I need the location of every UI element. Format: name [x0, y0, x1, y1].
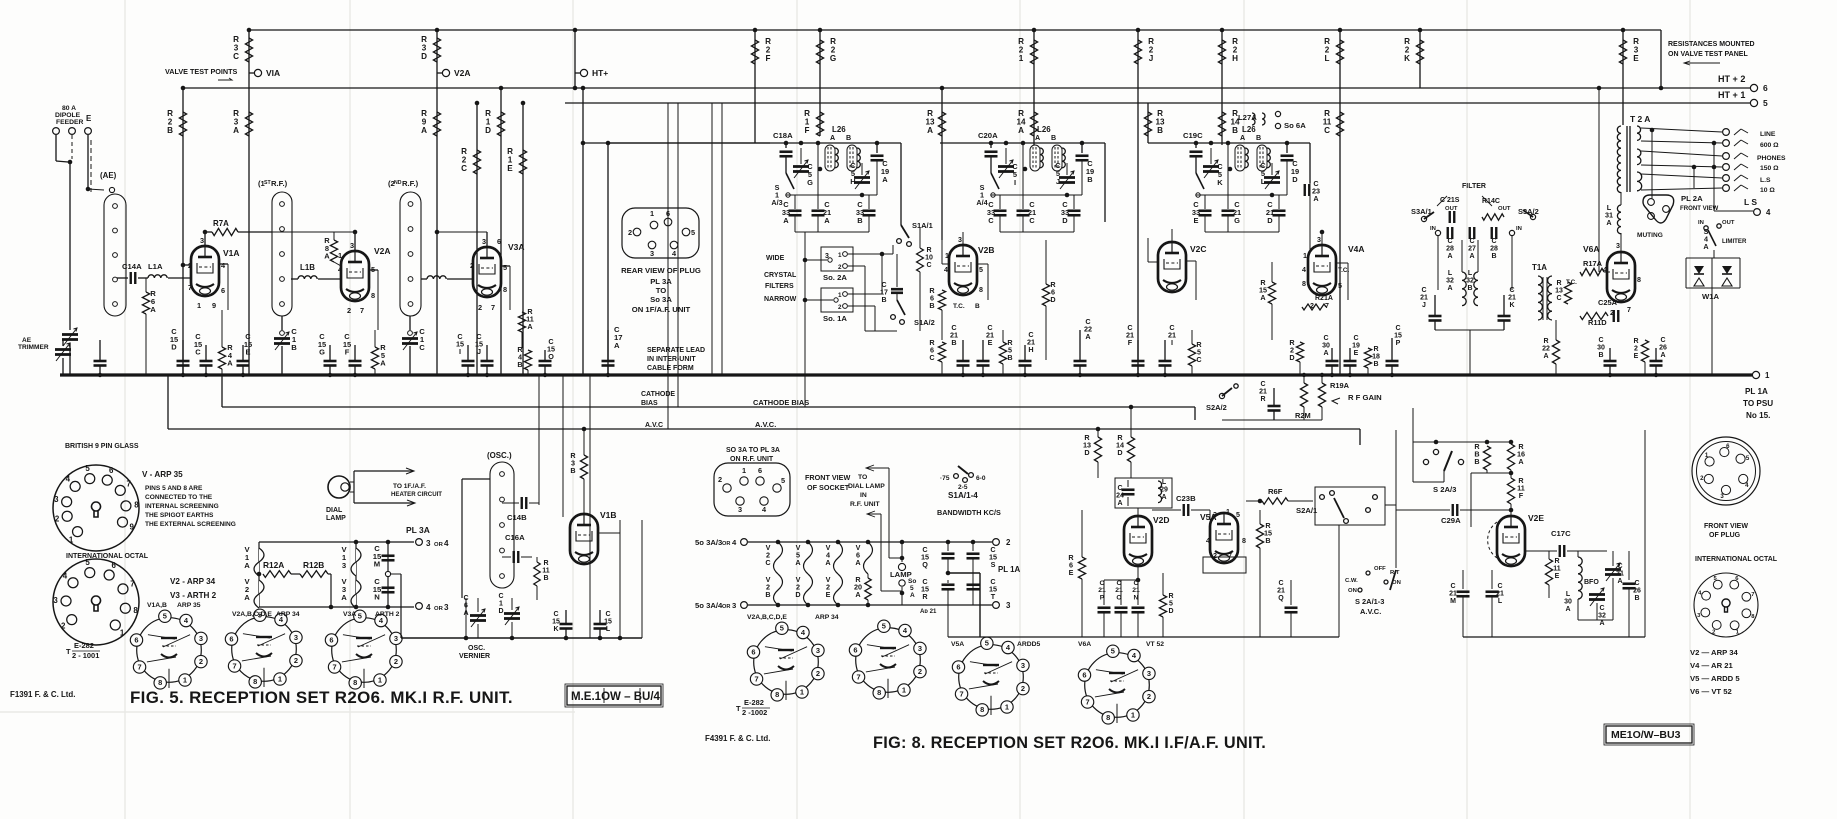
svg-text:V3A: V3A — [508, 242, 524, 252]
svg-text:5o 3A/3: 5o 3A/3 — [695, 538, 722, 547]
svg-text:V1A: V1A — [223, 248, 239, 258]
svg-text:A: A — [1085, 332, 1091, 341]
svg-text:D: D — [1050, 295, 1055, 304]
svg-text:A/4: A/4 — [976, 198, 987, 207]
svg-text:BIAS: BIAS — [641, 400, 658, 407]
svg-text:D: D — [1117, 448, 1122, 457]
svg-text:R17A: R17A — [1583, 259, 1603, 268]
svg-text:PL 1A: PL 1A — [1745, 387, 1768, 396]
svg-text:E: E — [1555, 573, 1560, 580]
svg-text:TO: TO — [858, 474, 867, 481]
svg-text:4: 4 — [1766, 208, 1771, 217]
svg-text:I: I — [459, 347, 461, 356]
svg-text:8: 8 — [1637, 276, 1641, 284]
svg-text:B: B — [857, 216, 863, 225]
svg-text:7: 7 — [188, 283, 192, 292]
svg-text:2: 2 — [1006, 538, 1011, 547]
svg-text:E: E — [1634, 353, 1639, 360]
svg-text:6: 6 — [751, 647, 755, 656]
svg-text:G: G — [807, 178, 813, 187]
svg-text:C: C — [1660, 337, 1665, 344]
svg-text:L: L — [1468, 270, 1473, 277]
svg-text:C29A: C29A — [1441, 516, 1461, 525]
svg-text:2: 2 — [61, 621, 66, 630]
svg-text:D: D — [1267, 216, 1273, 225]
svg-text:C: C — [926, 262, 931, 269]
svg-text:K: K — [553, 626, 558, 633]
svg-text:V2E: V2E — [1528, 513, 1544, 523]
svg-text:S1A/1-4: S1A/1-4 — [948, 491, 978, 500]
svg-text:3: 3 — [350, 241, 354, 250]
svg-text:ON VALVE TEST PANEL: ON VALVE TEST PANEL — [1668, 51, 1748, 58]
svg-text:L26: L26 — [1242, 125, 1256, 134]
svg-text:C14A: C14A — [122, 262, 142, 271]
svg-text:MUTING: MUTING — [1637, 232, 1663, 239]
svg-text:C: C — [1353, 335, 1358, 342]
svg-text:2: 2 — [838, 264, 842, 271]
svg-text:B: B — [1491, 253, 1496, 260]
svg-text:A: A — [1240, 134, 1245, 142]
svg-text:LINE: LINE — [1760, 131, 1776, 138]
svg-text:5: 5 — [1169, 600, 1173, 607]
svg-text:3: 3 — [426, 539, 431, 548]
svg-text:R21A: R21A — [1315, 295, 1333, 302]
svg-text:R: R — [1373, 346, 1378, 353]
svg-text:C: C — [1421, 287, 1426, 294]
svg-text:THE EXTERNAL SCREENING: THE EXTERNAL SCREENING — [145, 521, 236, 528]
svg-text:10: 10 — [925, 254, 933, 261]
svg-text:OR: OR — [434, 606, 444, 612]
svg-text:AE: AE — [22, 337, 32, 344]
svg-text:D: D — [795, 590, 800, 599]
svg-text:R.F.): R.F.) — [402, 179, 419, 188]
svg-text:So 6A: So 6A — [1284, 121, 1306, 130]
svg-text:1: 1 — [1131, 710, 1135, 719]
svg-text:24: 24 — [1116, 492, 1124, 499]
svg-text:E: E — [507, 164, 513, 173]
svg-text:L: L — [1325, 54, 1330, 63]
svg-text:29: 29 — [1160, 486, 1168, 493]
svg-text:3: 3 — [918, 644, 922, 653]
svg-text:B: B — [1051, 134, 1056, 142]
svg-text:3: 3 — [200, 236, 204, 245]
svg-text:7: 7 — [137, 662, 141, 671]
svg-text:6: 6 — [1082, 670, 1086, 679]
svg-text:A: A — [1161, 494, 1166, 501]
svg-text:HT + 1: HT + 1 — [1718, 90, 1745, 100]
svg-text:R: R — [1554, 558, 1559, 565]
svg-text:G: G — [1234, 216, 1240, 225]
svg-text:4: 4 — [63, 571, 68, 580]
svg-text:DIAL LAMP: DIAL LAMP — [848, 483, 885, 490]
svg-text:1: 1 — [338, 251, 342, 260]
svg-text:E: E — [1633, 54, 1639, 63]
svg-text:TRIMMER: TRIMMER — [18, 344, 49, 351]
svg-text:7: 7 — [127, 480, 132, 489]
svg-text:5: 5 — [781, 476, 785, 485]
svg-text:C19C: C19C — [1183, 131, 1203, 140]
svg-text:T.C.: T.C. — [953, 303, 965, 310]
svg-text:R12B: R12B — [303, 560, 324, 570]
svg-text:1: 1 — [650, 209, 654, 218]
svg-text:A.V.C.: A.V.C. — [755, 420, 776, 429]
svg-text:9: 9 — [130, 523, 135, 532]
svg-text:L: L — [1162, 479, 1167, 486]
svg-text:V2A: V2A — [374, 246, 390, 256]
svg-text:FEEDER: FEEDER — [56, 119, 84, 126]
svg-text:8: 8 — [775, 690, 779, 699]
svg-text:7: 7 — [332, 662, 336, 671]
svg-text:So. 2A: So. 2A — [823, 273, 847, 282]
svg-text:ARTH 2: ARTH 2 — [375, 611, 400, 618]
svg-text:C: C — [1029, 216, 1035, 225]
svg-text:1: 1 — [499, 600, 503, 607]
svg-text:31: 31 — [1616, 570, 1624, 577]
svg-text:B: B — [517, 360, 522, 369]
svg-text:3: 3 — [199, 634, 203, 643]
svg-text:4: 4 — [732, 538, 737, 547]
svg-text:3: 3 — [650, 249, 654, 258]
svg-text:A: A — [855, 558, 861, 567]
svg-text:VT 52: VT 52 — [1146, 641, 1164, 648]
svg-text:L.S: L.S — [1760, 177, 1771, 184]
svg-text:1: 1 — [69, 535, 74, 544]
svg-text:5: 5 — [910, 585, 914, 592]
svg-text:4: 4 — [66, 474, 71, 483]
svg-text:A.V.C.: A.V.C. — [1360, 607, 1381, 616]
svg-text:3: 3 — [958, 236, 962, 244]
svg-text:No 15.: No 15. — [1746, 411, 1770, 420]
svg-text:8: 8 — [980, 705, 984, 714]
svg-text:A: A — [1518, 457, 1524, 466]
svg-text:2: 2 — [55, 515, 60, 524]
svg-text:6: 6 — [853, 645, 857, 654]
svg-text:DIAL: DIAL — [326, 507, 343, 514]
svg-text:5: 5 — [1338, 282, 1342, 290]
svg-text:4: 4 — [1603, 266, 1607, 274]
svg-text:32: 32 — [1466, 277, 1474, 284]
svg-text:L: L — [1261, 177, 1266, 186]
svg-text:600 Ω: 600 Ω — [1760, 142, 1779, 149]
svg-text:17: 17 — [880, 289, 888, 296]
svg-text:HEATER CIRCUIT: HEATER CIRCUIT — [391, 491, 442, 498]
svg-text:6: 6 — [497, 237, 501, 246]
svg-text:T 2 A: T 2 A — [1630, 114, 1650, 124]
svg-text:E-282: E-282 — [74, 641, 94, 650]
svg-text:Q: Q — [1278, 595, 1284, 602]
svg-text:F: F — [805, 126, 810, 135]
svg-text:S2A/1: S2A/1 — [1296, 506, 1318, 515]
svg-text:C: C — [1634, 580, 1639, 587]
svg-text:5: 5 — [1111, 647, 1115, 656]
svg-text:C: C — [1117, 485, 1122, 492]
svg-text:T1A: T1A — [1532, 263, 1547, 272]
svg-text:R F GAIN: R F GAIN — [1348, 393, 1382, 402]
svg-text:3: 3 — [825, 253, 829, 260]
svg-text:LAMP: LAMP — [326, 515, 346, 522]
svg-text:B: B — [543, 575, 548, 582]
svg-text:S2A/2: S2A/2 — [1206, 403, 1227, 412]
svg-text:A: A — [1565, 606, 1570, 613]
svg-text:C: C — [1497, 583, 1502, 590]
svg-text:8: 8 — [503, 285, 507, 294]
svg-text:30: 30 — [1597, 344, 1605, 351]
svg-text:A: A — [227, 359, 233, 368]
svg-text:1: 1 — [742, 466, 746, 475]
svg-text:A: A — [855, 590, 861, 599]
svg-text:A: A — [1543, 353, 1548, 360]
svg-text:26: 26 — [1659, 344, 1667, 351]
svg-text:1: 1 — [197, 301, 201, 310]
svg-text:6: 6 — [1763, 83, 1768, 93]
svg-text:3: 3 — [738, 505, 742, 514]
svg-text:J: J — [1422, 302, 1426, 309]
svg-text:7: 7 — [754, 674, 758, 683]
svg-text:So: So — [908, 578, 916, 585]
svg-text:3: 3 — [1616, 242, 1620, 250]
svg-text:C: C — [1599, 605, 1604, 612]
svg-text:5: 5 — [1763, 98, 1768, 108]
svg-text:C: C — [605, 611, 610, 618]
svg-text:D: D — [1062, 216, 1068, 225]
svg-text:BFO: BFO — [1584, 579, 1599, 586]
svg-text:6: 6 — [329, 635, 333, 644]
svg-text:1: 1 — [378, 675, 382, 684]
svg-text:18: 18 — [1372, 353, 1380, 360]
svg-text:9: 9 — [212, 301, 216, 310]
svg-text:F1391 F. & C. Ltd.: F1391 F. & C. Ltd. — [10, 690, 75, 699]
svg-text:T: T — [66, 647, 71, 656]
svg-text:6: 6 — [134, 635, 138, 644]
svg-text:R14C: R14C — [1482, 198, 1500, 205]
svg-text:10 Ω: 10 Ω — [1760, 187, 1775, 194]
svg-text:1: 1 — [838, 292, 842, 299]
svg-text:PL 3A: PL 3A — [406, 525, 430, 535]
svg-text:1: 1 — [902, 685, 906, 694]
svg-text:ON R.F. UNIT: ON R.F. UNIT — [730, 456, 774, 463]
svg-text:2 -1002: 2 -1002 — [742, 708, 767, 717]
svg-text:D: D — [1084, 448, 1089, 457]
svg-text:S 2A/3: S 2A/3 — [1433, 485, 1456, 494]
svg-text:J: J — [477, 347, 481, 356]
svg-text:V3 - ARTH 2: V3 - ARTH 2 — [170, 591, 217, 600]
svg-text:C: C — [1196, 355, 1202, 364]
svg-text:C23B: C23B — [1176, 494, 1196, 503]
svg-text:G: G — [319, 348, 325, 357]
svg-text:3: 3 — [1213, 511, 1217, 519]
svg-text:V2A: V2A — [454, 68, 470, 78]
svg-text:S: S — [991, 560, 996, 569]
svg-text:3: 3 — [1021, 661, 1025, 670]
svg-text:ARP 34: ARP 34 — [276, 611, 300, 618]
svg-text:So. 1A: So. 1A — [823, 314, 847, 323]
svg-text:OFF: OFF — [1374, 566, 1386, 572]
svg-text:6: 6 — [956, 662, 960, 671]
svg-text:V2 — ARP 34: V2 — ARP 34 — [1690, 648, 1738, 657]
svg-text:OUT: OUT — [1722, 220, 1735, 226]
svg-text:ARDD5: ARDD5 — [1017, 641, 1041, 648]
svg-text:1: 1 — [945, 252, 949, 260]
svg-text:CATHODE: CATHODE — [641, 391, 675, 398]
svg-text:M.E.1OW – BU/4: M.E.1OW – BU/4 — [571, 691, 661, 703]
svg-text:CATHODE BIAS: CATHODE BIAS — [753, 398, 809, 407]
svg-text:A: A — [927, 126, 933, 135]
svg-text:B: B — [1007, 353, 1012, 362]
svg-text:B: B — [1373, 361, 1378, 368]
svg-text:J: J — [1149, 54, 1154, 63]
svg-text:3: 3 — [1006, 601, 1011, 610]
svg-text:21: 21 — [1132, 587, 1140, 594]
svg-text:4: 4 — [944, 266, 948, 274]
svg-text:F: F — [766, 54, 771, 63]
svg-text:R: R — [1168, 593, 1173, 600]
svg-text:1: 1 — [1765, 371, 1770, 380]
svg-text:K: K — [1217, 178, 1223, 187]
svg-text:OSC.: OSC. — [468, 645, 485, 652]
svg-text:PL 2A: PL 2A — [1681, 194, 1703, 203]
svg-text:1: 1 — [838, 252, 842, 259]
svg-text:5: 5 — [85, 464, 90, 473]
svg-text:E: E — [1194, 216, 1199, 225]
svg-text:3: 3 — [53, 596, 58, 605]
svg-text:So 3A: So 3A — [650, 295, 672, 304]
svg-text:V6A: V6A — [1078, 641, 1091, 648]
svg-text:8: 8 — [253, 677, 257, 686]
svg-text:E-282: E-282 — [744, 698, 764, 707]
svg-text:C: C — [929, 353, 935, 362]
svg-text:V2 - ARP 34: V2 - ARP 34 — [170, 577, 216, 586]
svg-text:L26: L26 — [832, 125, 846, 134]
svg-text:L1A: L1A — [148, 262, 163, 271]
svg-text:15: 15 — [604, 618, 612, 625]
svg-text:O: O — [1116, 594, 1121, 601]
svg-text:7: 7 — [1627, 306, 1631, 314]
svg-text:2: 2 — [1610, 309, 1614, 317]
svg-text:SEPARATE LEAD: SEPARATE LEAD — [647, 347, 705, 354]
svg-text:B: B — [1157, 126, 1163, 135]
svg-text:A: A — [1606, 218, 1612, 227]
svg-text:15: 15 — [552, 618, 560, 625]
svg-text:C: C — [1598, 337, 1603, 344]
svg-text:2: 2 — [347, 306, 351, 315]
svg-text:R19A: R19A — [1330, 381, 1350, 390]
svg-text:7: 7 — [1228, 552, 1232, 560]
svg-text:FILTERS: FILTERS — [765, 283, 794, 290]
svg-text:IN: IN — [1698, 220, 1704, 226]
svg-text:G: G — [830, 54, 836, 63]
svg-text:C: C — [1278, 580, 1283, 587]
svg-text:V6 — VT 52: V6 — VT 52 — [1690, 687, 1732, 696]
svg-text:A: A — [1035, 134, 1040, 142]
svg-text:1: 1 — [1005, 702, 1009, 711]
svg-text:O: O — [548, 352, 554, 361]
svg-text:3: 3 — [732, 601, 736, 610]
svg-text:TO: TO — [656, 286, 667, 295]
svg-text:L: L — [1448, 270, 1453, 277]
svg-text:S1A/2: S1A/2 — [914, 318, 935, 327]
svg-text:1: 1 — [278, 674, 282, 683]
svg-text:30: 30 — [1564, 598, 1572, 605]
svg-text:2: 2 — [718, 475, 722, 484]
svg-text:R: R — [1543, 338, 1548, 345]
svg-text:2 - 1001: 2 - 1001 — [72, 651, 99, 660]
svg-text:A: A — [421, 126, 427, 135]
svg-text:L1B: L1B — [300, 263, 315, 272]
svg-text:OUT: OUT — [1498, 206, 1511, 212]
svg-text:1: 1 — [183, 675, 187, 684]
svg-text:11: 11 — [542, 567, 550, 574]
svg-text:A: A — [380, 359, 386, 368]
svg-text:C20A: C20A — [978, 131, 998, 140]
svg-text:S 2A/1-3: S 2A/1-3 — [1355, 597, 1384, 606]
svg-text:R: R — [543, 560, 548, 567]
svg-text:B: B — [1265, 536, 1270, 545]
svg-text:C: C — [988, 216, 994, 225]
svg-text:A: A — [1617, 578, 1622, 585]
svg-text:L: L — [1566, 591, 1571, 598]
svg-text:2: 2 — [478, 303, 482, 312]
svg-text:5o 3A/4: 5o 3A/4 — [695, 601, 723, 610]
svg-text:R: R — [1260, 396, 1265, 403]
svg-text:7: 7 — [491, 303, 495, 312]
svg-text:R: R — [926, 247, 931, 254]
svg-text:C: C — [1469, 238, 1474, 245]
svg-text:E: E — [826, 590, 831, 599]
svg-text:8: 8 — [1302, 280, 1306, 288]
svg-text:E: E — [86, 114, 91, 123]
svg-text:7: 7 — [959, 689, 963, 698]
svg-text:A: A — [527, 322, 533, 331]
svg-text:PL 3A: PL 3A — [650, 277, 672, 286]
svg-text:1: 1 — [1226, 508, 1230, 516]
svg-text:A: A — [1447, 253, 1452, 260]
svg-text:B: B — [846, 134, 851, 142]
svg-text:VALVE TEST POINTS: VALVE TEST POINTS — [165, 67, 238, 76]
svg-text:E: E — [1354, 350, 1359, 357]
svg-text:CRYSTAL: CRYSTAL — [764, 272, 797, 279]
svg-text:A: A — [1260, 293, 1266, 302]
svg-text:21: 21 — [1496, 590, 1504, 597]
svg-text:8: 8 — [353, 678, 357, 687]
svg-text:C: C — [881, 282, 886, 289]
svg-text:FRONT VIEW: FRONT VIEW — [1704, 523, 1748, 530]
svg-text:·75: ·75 — [940, 475, 950, 482]
svg-text:6: 6 — [758, 466, 762, 475]
svg-text:L: L — [1498, 598, 1503, 605]
svg-text:V5 — ARDD 5: V5 — ARDD 5 — [1690, 674, 1740, 683]
svg-text:6: 6 — [109, 466, 114, 475]
svg-text:B: B — [1634, 595, 1639, 602]
svg-text:8: 8 — [877, 688, 881, 697]
svg-text:R.F. UNIT: R.F. UNIT — [850, 501, 881, 508]
svg-text:4: 4 — [426, 603, 431, 612]
svg-text:C14B: C14B — [507, 513, 527, 522]
svg-text:INTERNATIONAL OCTAL: INTERNATIONAL OCTAL — [66, 553, 149, 560]
svg-text:E: E — [1069, 568, 1074, 577]
svg-text:DIPOLE: DIPOLE — [55, 112, 81, 119]
svg-text:3: 3 — [1147, 669, 1151, 678]
svg-text:THE SPIGOT EARTHS: THE SPIGOT EARTHS — [145, 512, 214, 519]
svg-text:IN: IN — [1516, 226, 1522, 232]
svg-text:8: 8 — [158, 678, 162, 687]
svg-text:80 A: 80 A — [62, 105, 76, 112]
svg-text:A: A — [1313, 194, 1319, 203]
svg-text:C: C — [233, 52, 239, 61]
svg-text:4: 4 — [1302, 266, 1306, 274]
svg-text:22: 22 — [1542, 345, 1550, 352]
svg-text:32: 32 — [1446, 277, 1454, 284]
svg-text:6: 6 — [1726, 443, 1730, 450]
